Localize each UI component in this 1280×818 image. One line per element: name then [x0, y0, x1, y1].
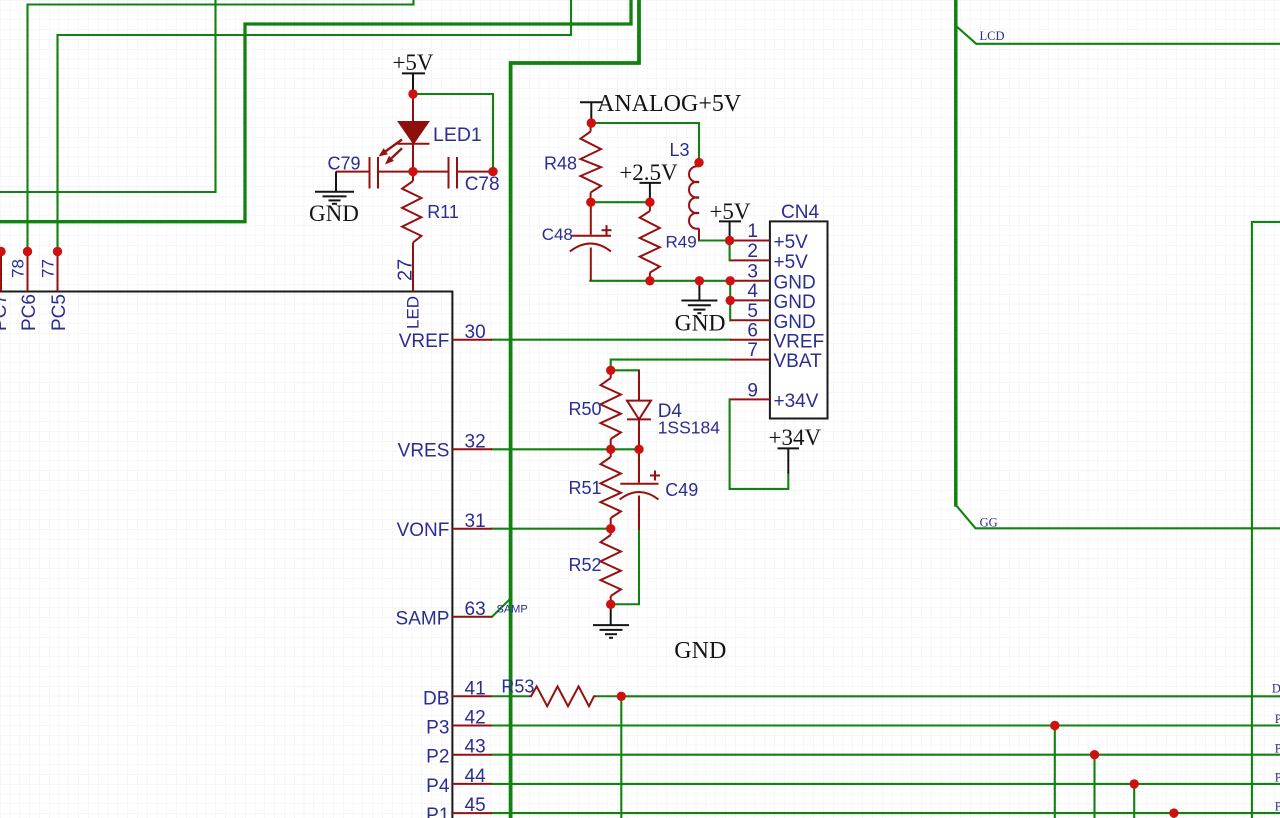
wire net D: [0, 0, 216, 192]
capacitor C48 polarized: [590, 202, 592, 235]
svg-text:VRES: VRES: [398, 441, 450, 462]
resistor R48: [590, 123, 592, 132]
svg-text:41: 41: [465, 679, 486, 700]
svg-text:GND: GND: [309, 201, 359, 226]
wire L3 bottom to CN4 pin1: [699, 239, 730, 241]
pin 43 stub: [452, 754, 492, 756]
svg-text:SAMP: SAMP: [396, 609, 450, 630]
power +5V port bar (CN4): [719, 220, 741, 222]
junction +5V node: [408, 89, 417, 98]
svg-text:63: 63: [465, 599, 486, 620]
capacitor C48 plus sign: [602, 229, 612, 231]
svg-text:LCD: LCD: [980, 29, 1005, 43]
svg-text:P2: P2: [1275, 742, 1280, 756]
svg-text:R50: R50: [568, 399, 601, 419]
wire CN4 pin1 to pin2: [729, 241, 731, 261]
svg-text:C78: C78: [465, 174, 500, 195]
capacitor C78: [413, 171, 449, 173]
svg-text:9: 9: [747, 381, 758, 402]
svg-text:P1: P1: [1275, 800, 1280, 814]
CN4 pin 4 stub: [730, 299, 770, 301]
svg-text:GND: GND: [774, 312, 816, 333]
svg-text:C48: C48: [542, 225, 573, 244]
junction pin4: [726, 296, 735, 305]
wire +34V loop from CN4 pin9: [730, 399, 789, 489]
LED LED1 cathode bar: [398, 143, 430, 145]
wire LCD bus thick vertical right: [954, 0, 958, 505]
junction VRES node D4: [634, 445, 643, 454]
svg-text:+34V: +34V: [769, 425, 822, 450]
IC U1 body outline: [0, 292, 452, 818]
junction R52 bottom: [606, 600, 615, 609]
diode D4 cathode lead: [638, 419, 640, 449]
svg-text:P4: P4: [1275, 771, 1280, 785]
svg-text:VONF: VONF: [397, 520, 450, 541]
svg-text:7: 7: [747, 340, 758, 361]
pin 32 stub: [452, 448, 492, 450]
wire P2 branch down: [1093, 755, 1095, 818]
resistor R50: [610, 370, 612, 378]
svg-text:R11: R11: [427, 202, 459, 222]
diode D4 cathode bar: [627, 418, 651, 420]
LED LED1 emission arrow 1: [379, 140, 403, 157]
resistor R11: [412, 172, 414, 181]
svg-text:44: 44: [465, 766, 487, 787]
wire P3 branch down: [1054, 726, 1056, 818]
svg-text:27: 27: [395, 259, 417, 281]
pin 44 stub: [452, 783, 492, 785]
wire GND rail: [590, 281, 730, 321]
diode D4 triangle: [627, 401, 651, 420]
wire P2 net: [492, 754, 1280, 756]
svg-text:P1: P1: [426, 805, 449, 818]
wire bus vertical thick: [511, 0, 639, 818]
wire node R50/D4 top: [611, 369, 639, 371]
ground GND symbol (C79): [335, 172, 337, 192]
wire SAMP bus entry diagonal: [492, 599, 511, 617]
wire +5V to C78: [414, 94, 494, 172]
svg-text:R49: R49: [666, 233, 697, 252]
LED LED1 anode lead: [412, 94, 414, 122]
junction rail GND: [695, 276, 704, 285]
diode D4 anode lead: [638, 370, 640, 400]
svg-text:PC7: PC7: [0, 294, 11, 331]
CN4 pin 5 stub: [730, 319, 770, 321]
wire P1 net: [492, 812, 1280, 814]
pin 45 stub: [452, 812, 492, 814]
svg-text:32: 32: [465, 432, 486, 453]
CN4 pin 3 stub: [730, 280, 770, 282]
svg-text:45: 45: [465, 795, 486, 816]
svg-text:+34V: +34V: [774, 391, 819, 412]
svg-text:SAMP: SAMP: [497, 604, 528, 616]
svg-text:VREF: VREF: [399, 331, 450, 352]
CN4 pin 9 stub: [730, 398, 770, 400]
svg-text:GND: GND: [674, 638, 726, 664]
power +34V port bar: [778, 447, 800, 449]
capacitor C49 plus sign: [650, 475, 660, 477]
junction CN4 pin1: [725, 236, 734, 245]
junction VBAT node: [606, 366, 615, 375]
wire DB net: [621, 696, 1280, 818]
wire right edge vertical: [1252, 222, 1280, 818]
connector CN4 body outline: [770, 221, 828, 418]
svg-text:R53: R53: [501, 677, 534, 697]
svg-text:VBAT: VBAT: [774, 351, 823, 372]
svg-text:P3: P3: [426, 718, 449, 739]
wire VREF pin30 to CN4 pin6: [492, 339, 730, 341]
wire net C: [58, 0, 572, 252]
svg-text:+5V: +5V: [774, 232, 809, 253]
capacitor C49 polarized: [638, 449, 640, 483]
junction P2 branch: [1090, 750, 1099, 759]
svg-text:LED: LED: [404, 296, 423, 329]
svg-text:P3: P3: [1275, 712, 1280, 726]
pin stub clipped left edge: [0, 252, 2, 292]
svg-text:R52: R52: [568, 555, 601, 575]
junction pin 78: [23, 247, 32, 256]
power +5V port bar (top): [402, 72, 425, 74]
junction P3 branch: [1050, 721, 1059, 730]
wire LCD branch diagonal: [956, 26, 1280, 44]
svg-text:P2: P2: [426, 747, 449, 768]
CN4 pin 1 stub: [730, 240, 770, 242]
svg-text:CN4: CN4: [781, 202, 819, 223]
svg-text:GND: GND: [774, 292, 816, 313]
svg-text:3: 3: [747, 261, 758, 282]
wire net B thick top-left: [0, 0, 631, 222]
svg-text:4: 4: [747, 281, 758, 302]
wire P3 net: [492, 724, 1280, 726]
capacitor C79: [336, 171, 370, 173]
svg-text:GND: GND: [675, 311, 726, 337]
wire ANALOG+5V to L3: [591, 123, 699, 163]
wire P4 net: [492, 783, 1280, 785]
junction L3 top: [694, 158, 703, 167]
inductor L3: [698, 163, 700, 167]
svg-text:R48: R48: [544, 154, 577, 174]
svg-text:PC6: PC6: [19, 294, 40, 331]
pin 77 stub: [57, 252, 59, 292]
junction C78 right: [488, 167, 497, 176]
wire VONF pin31: [492, 528, 611, 530]
pin 41 stub: [452, 695, 492, 697]
junction LED cathode node: [408, 167, 417, 176]
svg-text:78: 78: [9, 259, 28, 278]
svg-text:5: 5: [747, 301, 758, 322]
junction rail pin3: [726, 276, 735, 285]
pin 30 stub: [452, 339, 492, 341]
pin 63 stub: [452, 616, 492, 618]
resistor R53: [492, 695, 529, 697]
junction clipped left: [0, 247, 6, 256]
wire net A top-left: [28, 0, 414, 252]
LED LED1 emission arrow 2: [385, 148, 402, 164]
svg-text:L3: L3: [670, 140, 690, 160]
svg-text:GG: GG: [980, 515, 998, 529]
svg-text:C49: C49: [665, 480, 698, 500]
junction +2.5V node: [645, 198, 654, 207]
svg-text:PC5: PC5: [49, 294, 70, 331]
wire GG branch diagonal: [956, 505, 1280, 529]
pin 31 stub: [452, 528, 492, 530]
CN4 pin 6 stub: [730, 339, 770, 341]
junction VONF node: [606, 524, 615, 533]
power +2.5V port bar: [640, 182, 661, 184]
svg-text:DB: DB: [1272, 681, 1280, 695]
pin 78 stub: [27, 252, 29, 292]
svg-text:+5V: +5V: [392, 50, 433, 75]
svg-text:6: 6: [747, 320, 758, 341]
wire C49 bottom: [611, 530, 639, 604]
ground GND symbol (CN4): [698, 281, 700, 300]
LED LED1 cathode lead: [412, 144, 414, 172]
svg-text:GND: GND: [774, 272, 816, 293]
svg-text:30: 30: [465, 322, 486, 343]
LED LED1 triangle: [399, 122, 428, 143]
junction rail R49: [645, 276, 654, 285]
junction ANALOG+5V: [587, 118, 596, 127]
svg-text:42: 42: [465, 708, 486, 729]
pin 42 stub: [452, 725, 492, 727]
svg-text:R51: R51: [568, 478, 601, 498]
svg-text:+2.5V: +2.5V: [619, 160, 678, 185]
svg-text:77: 77: [39, 259, 58, 278]
wire VRES pin32: [492, 448, 639, 450]
wire VBAT CN4 pin7 to R50: [611, 360, 731, 371]
junction VRES node R50: [606, 445, 615, 454]
ground GND symbol (R52): [610, 604, 612, 624]
svg-text:DB: DB: [423, 689, 449, 710]
wire P4 branch down: [1133, 784, 1135, 818]
junction R53 right: [617, 692, 626, 701]
pin 27 stub: [412, 251, 414, 292]
resistor R49: [649, 202, 651, 211]
svg-text:31: 31: [465, 511, 486, 532]
svg-text:2: 2: [747, 241, 758, 262]
CN4 pin 7 stub: [730, 359, 770, 361]
power ANALOG+5V port bar: [580, 101, 603, 103]
junction P4 branch: [1130, 779, 1139, 788]
svg-text:ANALOG+5V: ANALOG+5V: [597, 91, 742, 117]
wire R48 bottom to R49 top: [590, 201, 650, 203]
svg-text:VREF: VREF: [774, 332, 825, 353]
resistor R52: [610, 529, 612, 535]
svg-text:P4: P4: [426, 776, 450, 797]
resistor R51: [610, 449, 612, 457]
junction R48 bottom: [586, 198, 595, 207]
junction pin 77: [53, 247, 62, 256]
svg-text:1SS184: 1SS184: [658, 418, 721, 438]
svg-text:LED1: LED1: [433, 124, 482, 146]
CN4 pin 2 stub: [730, 259, 770, 261]
svg-text:1: 1: [747, 221, 758, 242]
junction P1 branch: [1169, 808, 1178, 817]
svg-text:+5V: +5V: [709, 199, 750, 224]
svg-text:43: 43: [465, 737, 486, 758]
wire P1 branch down: [1173, 813, 1175, 818]
svg-text:+5V: +5V: [774, 252, 809, 273]
svg-text:C79: C79: [327, 154, 360, 174]
